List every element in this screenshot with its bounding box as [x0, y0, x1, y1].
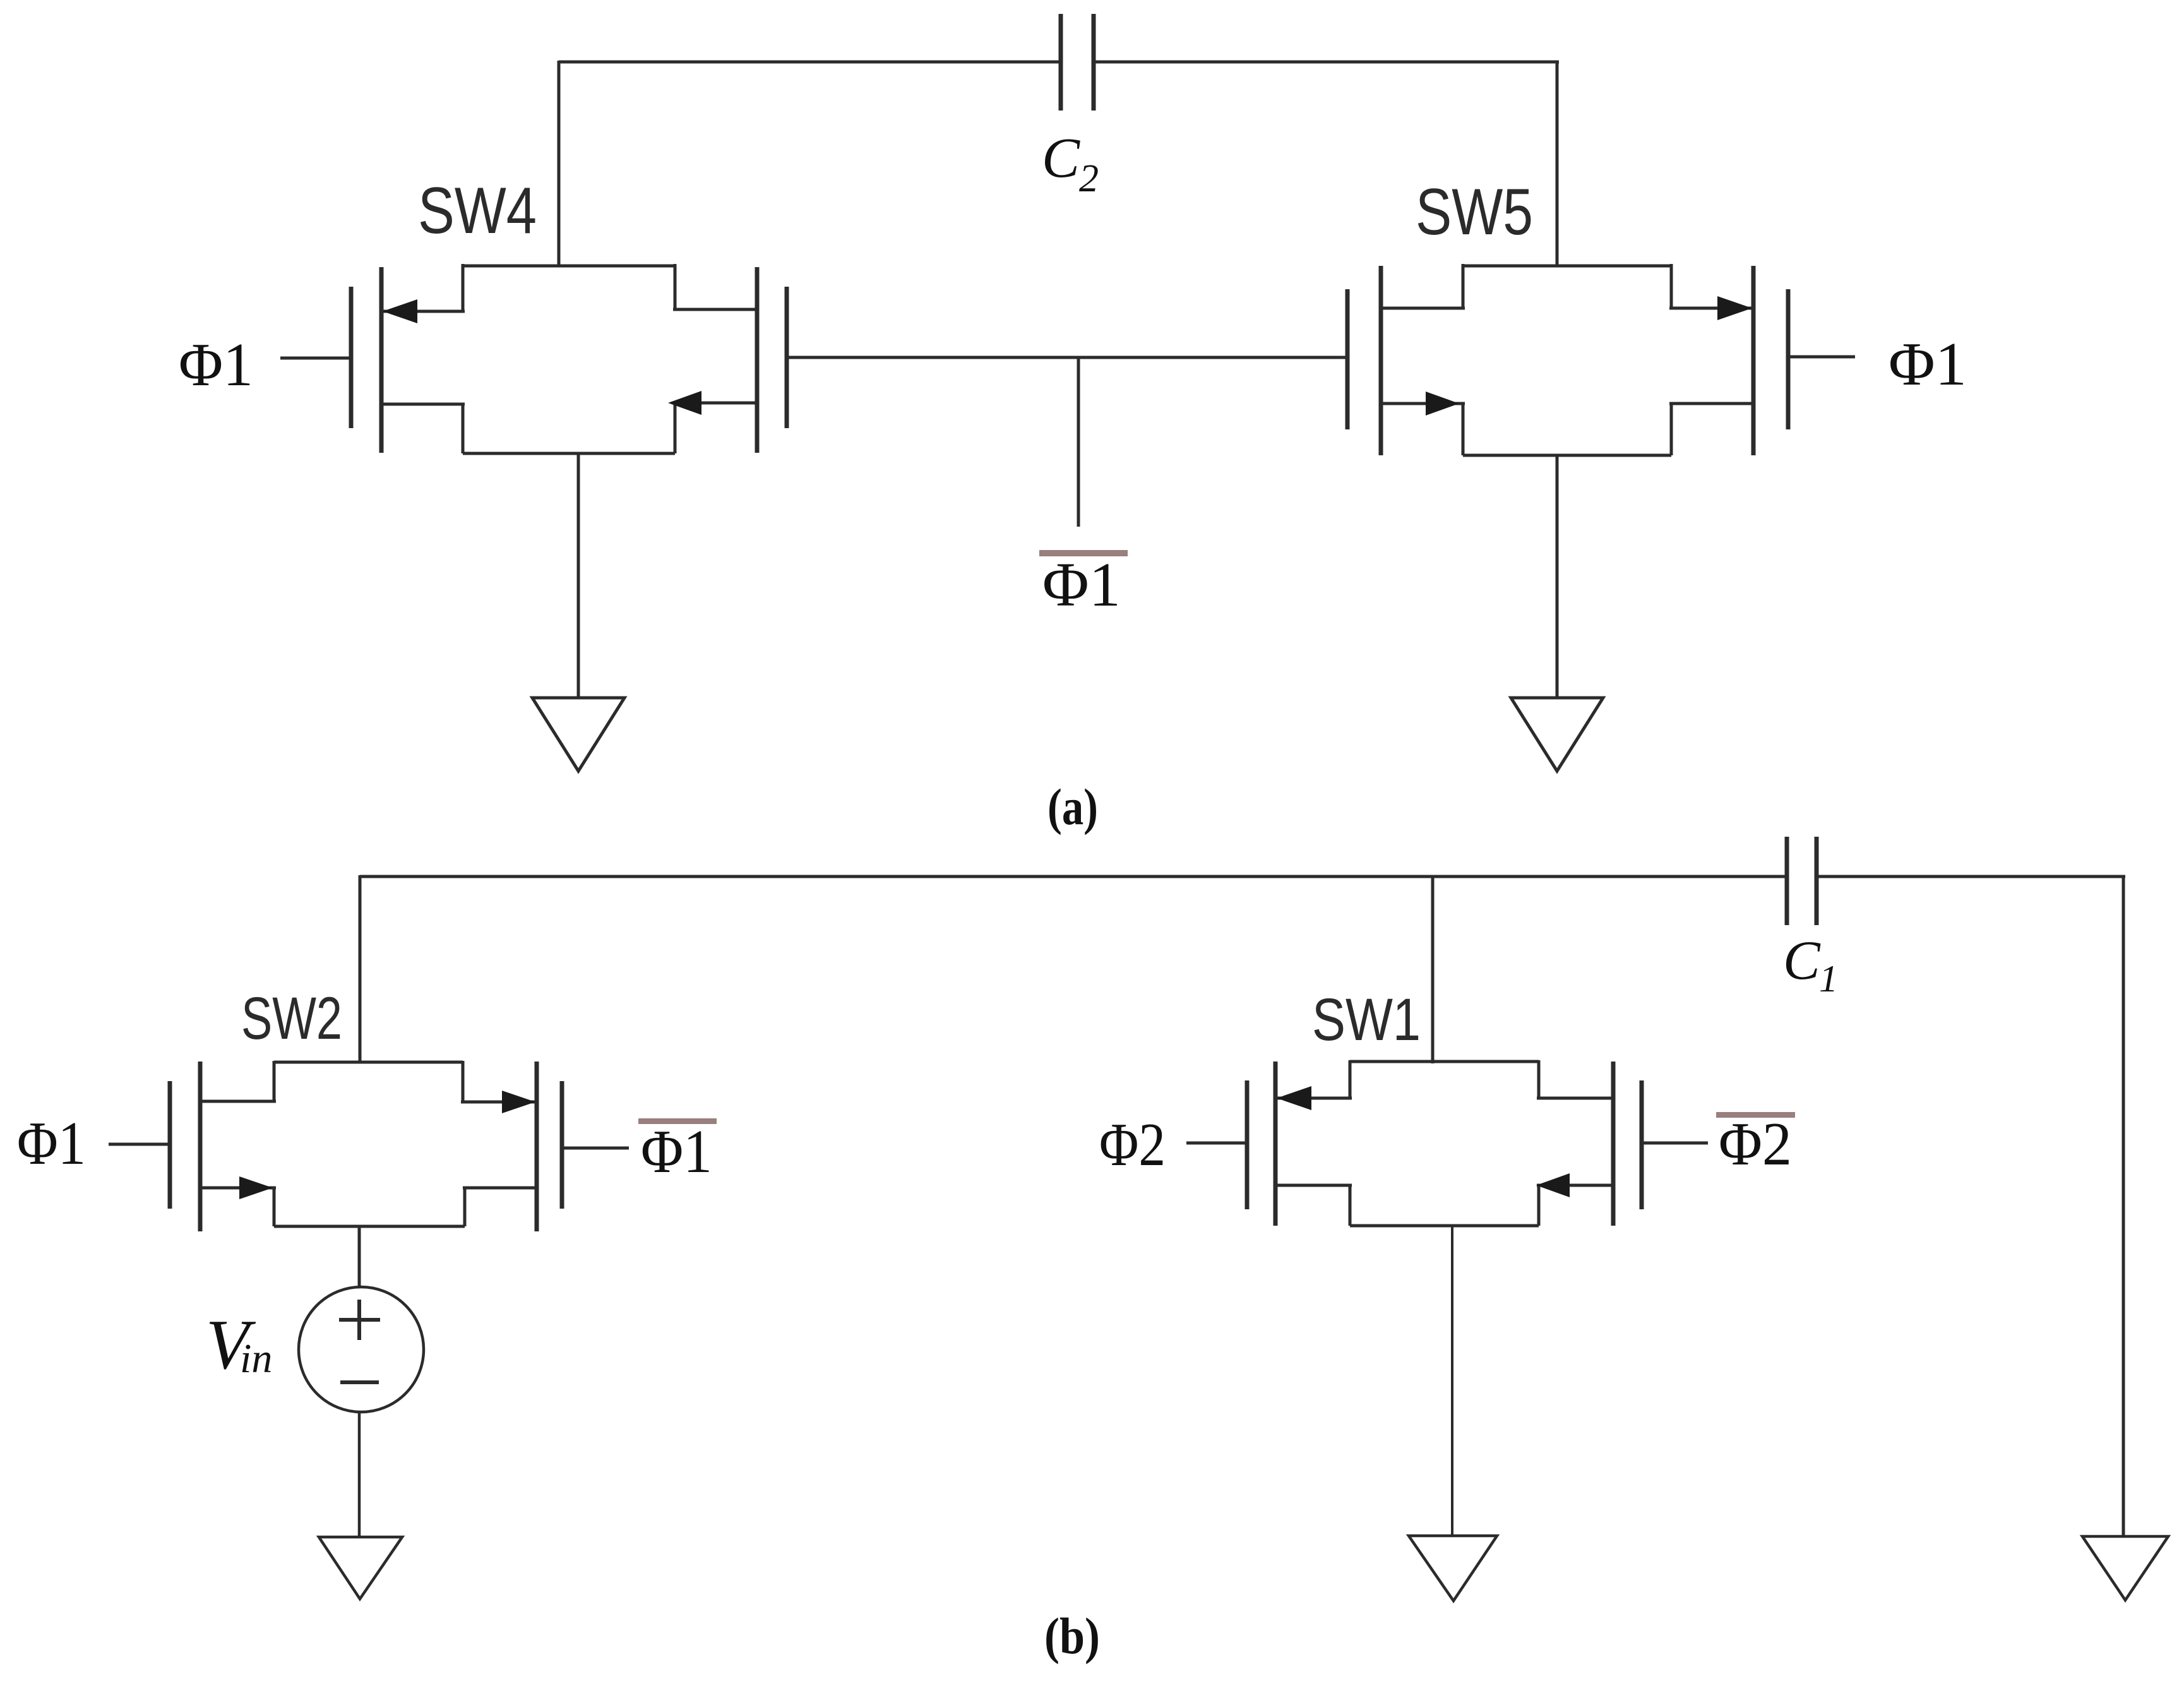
transistor SW5 right channel bar: [1751, 266, 1756, 455]
wire SW2 top-left lead: [200, 1100, 276, 1103]
wire SW4 right bottom step: [674, 403, 677, 453]
capacitor C2: [1061, 14, 1094, 111]
wire SW4 top vertical: [558, 61, 561, 266]
svg-text:SW4: SW4: [418, 174, 537, 248]
arrow SW4 bottom-right (points left): [668, 391, 701, 415]
svg-text:Φ2: Φ2: [1099, 1111, 1166, 1179]
svg-text:Φ1: Φ1: [17, 1110, 86, 1178]
wire SW1 top-left lead: [1275, 1097, 1352, 1100]
voltage source Vin circle: [299, 1287, 424, 1412]
transistor SW1 right gate bar: [1640, 1080, 1644, 1209]
wire SW4 top rail: [463, 265, 675, 268]
wire SW4 right top step: [674, 264, 677, 309]
svg-text:Φ1: Φ1: [1042, 549, 1121, 619]
transistor switch SW4 body: [280, 264, 787, 453]
ground symbol bottom right: [2082, 1536, 2168, 1600]
svg-text:(b): (b): [1044, 1607, 1100, 1665]
transistor SW4 right channel bar: [755, 267, 760, 453]
svg-text:(a): (a): [1047, 778, 1098, 835]
ground symbol below SW5: [1511, 698, 1603, 771]
wire SW1 top-right lead: [1537, 1097, 1613, 1100]
transistor SW4 left channel bar: [379, 267, 384, 453]
wire SW4 bottom-left lead: [381, 403, 465, 406]
wire SW4 top-right lead: [673, 308, 757, 311]
wire SW1 left bottom step: [1349, 1185, 1352, 1226]
wire SW2 bottom-right lead: [463, 1187, 537, 1190]
svg-text:1: 1: [1819, 958, 1838, 1000]
wire SW1 right bottom step: [1537, 1185, 1541, 1226]
wire SW5 bottom vertical to ground: [1556, 455, 1559, 698]
wire SW1 right top step: [1537, 1060, 1541, 1098]
capacitor C1: [1787, 837, 1817, 925]
transistor SW4 right gate bar: [785, 287, 789, 428]
wire SW2 right gate lead: [562, 1147, 629, 1150]
transistor SW5 right gate bar: [1786, 289, 1791, 429]
svg-text:C: C: [1783, 930, 1821, 991]
wire SW5 left bottom step: [1462, 404, 1465, 455]
wire SW4 bottom-right lead: [673, 402, 757, 405]
svg-text:Φ1: Φ1: [1889, 330, 1967, 398]
wire SW2 top-right lead: [461, 1101, 537, 1104]
wire SW5 top-left lead: [1381, 307, 1465, 310]
arrow SW4 top-left (points left): [383, 299, 417, 323]
wire SW2 bottom-left lead: [200, 1187, 276, 1190]
wire SW5 bottom-right lead: [1669, 402, 1753, 405]
wire SW1 bottom vertical to ground: [1451, 1226, 1453, 1536]
wire SW2 left gate lead: [109, 1143, 170, 1146]
label phi1-bar middle node: [1039, 550, 1128, 556]
wire SW5 bottom rail: [1463, 454, 1671, 457]
transistor SW5 left gate bar: [1346, 289, 1350, 429]
wire middle node between SW4 and SW5: [787, 356, 1347, 359]
wire right vertical down to ground: [2122, 876, 2125, 1536]
transistor switch SW2 body: [109, 1061, 629, 1231]
wire SW1 left top step: [1349, 1060, 1352, 1098]
arrow SW1 top-left (points left): [1277, 1086, 1311, 1110]
transistor SW1 left channel bar: [1274, 1062, 1278, 1226]
transistor switch SW1 body: [1186, 1060, 1708, 1226]
wire SW5 right top step: [1670, 264, 1673, 308]
svg-text:SW5: SW5: [1416, 176, 1533, 249]
wire SW2 bottom rail: [274, 1225, 465, 1228]
arrow SW5 top-right (points right): [1717, 296, 1752, 320]
ground symbol below SW4: [532, 698, 624, 771]
wire SW4 left gate lead: [280, 357, 351, 360]
wire C2 right lead: [1094, 61, 1559, 64]
wire SW2 top vertical: [359, 875, 362, 1062]
wire SW5 right bottom step: [1670, 404, 1673, 455]
wire SW4 top-left lead: [381, 310, 465, 313]
wire SW5 bottom-left lead: [1381, 402, 1465, 405]
wire SW2 bottom vertical to Vin: [358, 1226, 361, 1288]
wire SW2 left top step: [273, 1061, 276, 1101]
transistor SW2 left channel bar: [198, 1062, 203, 1231]
wire SW5 top-right lead: [1669, 307, 1753, 310]
wire SW5 top vertical: [1556, 61, 1559, 266]
transistor SW1 right channel bar: [1611, 1062, 1616, 1226]
wire fig-b top rail left of C1: [360, 875, 1787, 878]
Vin minus sign: [340, 1380, 379, 1384]
wire SW2 top rail: [274, 1061, 463, 1064]
svg-text:SW1: SW1: [1312, 986, 1421, 1053]
transistor SW1 left gate bar: [1245, 1080, 1250, 1209]
svg-text:in: in: [240, 1336, 272, 1382]
wire SW2 left bottom step: [273, 1188, 276, 1226]
wire SW1 right gate lead: [1642, 1142, 1708, 1145]
svg-text:Φ2: Φ2: [1719, 1110, 1792, 1178]
transistor SW5 left channel bar: [1379, 266, 1383, 455]
wire SW4 left bottom step: [462, 404, 465, 453]
wire SW1 bottom-right lead: [1537, 1184, 1613, 1187]
transistor SW2 right channel bar: [535, 1062, 539, 1231]
wire SW2 right bottom step: [463, 1188, 467, 1226]
svg-text:2: 2: [1079, 157, 1099, 200]
label phi1-bar right of SW2: [638, 1118, 717, 1124]
wire SW2 right top step: [462, 1061, 465, 1102]
Vin plus sign: [339, 1300, 380, 1340]
transistor SW2 left gate bar: [168, 1081, 172, 1209]
arrow SW1 bottom-right (points left): [1536, 1173, 1570, 1197]
arrow SW5 bottom-left (points right): [1426, 392, 1459, 416]
svg-text:Φ1: Φ1: [179, 331, 253, 399]
transistor switch SW5 body: [1347, 264, 1855, 455]
wire SW1 top rail: [1350, 1060, 1539, 1063]
arrow SW2 top-right (points right): [502, 1091, 535, 1113]
wire SW4 bottom vertical to ground: [577, 453, 580, 698]
arrow SW2 bottom-left (points right): [239, 1176, 273, 1199]
wire SW5 top rail: [1463, 265, 1671, 268]
label phi2-bar right of SW1: [1716, 1112, 1795, 1118]
wire SW5 left top step: [1462, 264, 1465, 308]
wire SW1 bottom-left lead: [1275, 1184, 1352, 1187]
wire SW1 left gate lead: [1186, 1142, 1247, 1145]
svg-text:SW2: SW2: [241, 985, 342, 1052]
wire SW4 bottom rail: [463, 452, 675, 455]
transistor SW2 right gate bar: [560, 1081, 564, 1209]
wire SW4 left top step: [462, 264, 465, 311]
transistor SW4 left gate bar: [349, 287, 354, 428]
wire fig-b top rail right of C1: [1817, 875, 2125, 878]
svg-text:Φ1: Φ1: [641, 1118, 712, 1186]
wire Vin to ground: [358, 1412, 361, 1537]
wire SW1 bottom rail: [1350, 1224, 1539, 1228]
wire middle node stub down: [1077, 357, 1080, 527]
wire C2 left lead: [559, 61, 1061, 64]
ground symbol below Vin: [319, 1537, 402, 1599]
ground symbol below SW1: [1409, 1536, 1497, 1601]
svg-text:C: C: [1042, 127, 1080, 189]
wire SW1 junction vertical: [1431, 876, 1435, 1063]
wire SW5 right gate lead: [1788, 356, 1855, 359]
